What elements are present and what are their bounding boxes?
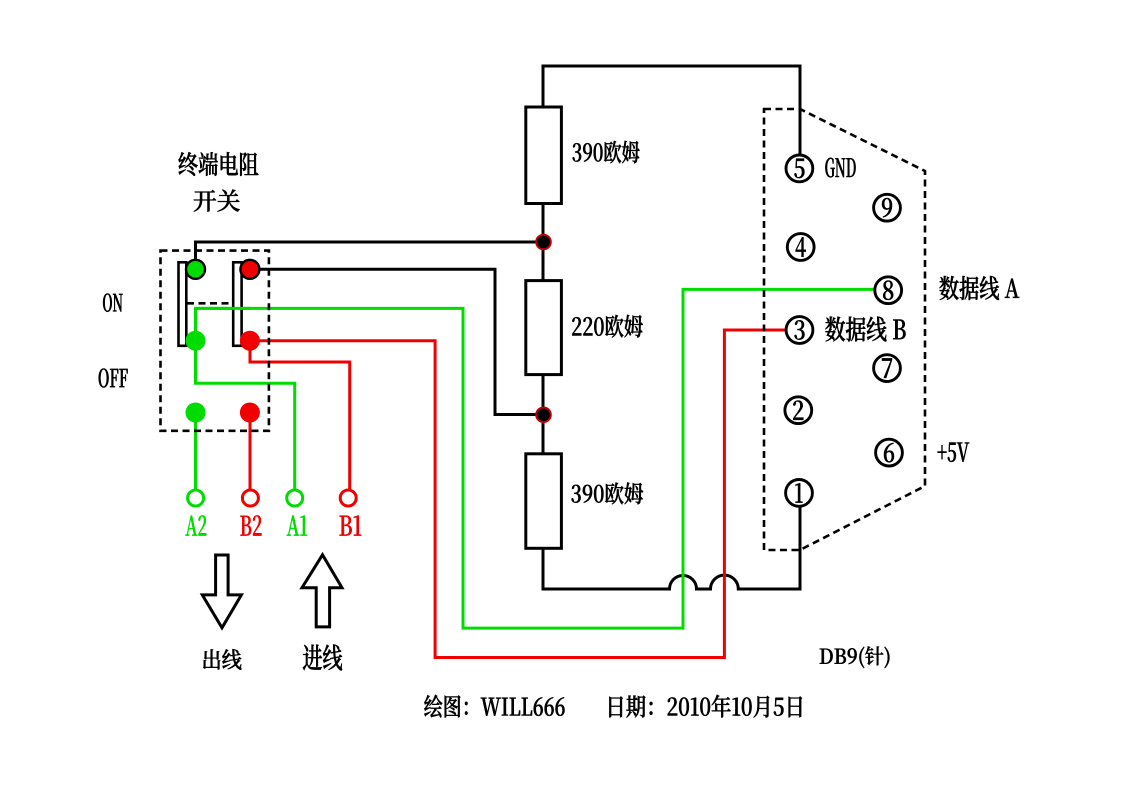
title 绘图：WILL666 bbox=[424, 695, 564, 718]
pin 3 circle bbox=[786, 317, 813, 344]
green ON wire over pole bbox=[196, 308, 251, 340]
label 终端电阻 bbox=[178, 152, 258, 176]
label B1 bbox=[340, 515, 362, 535]
pin 5 circle bbox=[786, 155, 813, 182]
label A2 bbox=[186, 515, 207, 535]
pin 7 circle bbox=[874, 355, 901, 382]
terminal circle B1 bbox=[340, 490, 356, 506]
pin 6 number bbox=[884, 443, 894, 462]
switch linkage dashed bbox=[187, 302, 233, 305]
DB9 connector dashed outline bbox=[764, 109, 925, 550]
wire green data line A: switch to pin 8 bbox=[196, 289, 875, 628]
pin 9 circle bbox=[874, 194, 901, 221]
wire R2 bottom to R3 top bbox=[542, 374, 545, 454]
terminal dot red bottom bbox=[240, 403, 260, 423]
label 开关 bbox=[194, 190, 240, 212]
pin 2 circle bbox=[785, 397, 812, 424]
label A1 bbox=[287, 515, 307, 535]
wire green to terminal A1 bbox=[196, 345, 295, 489]
pin 8 number bbox=[883, 281, 893, 300]
value 390欧姆 R1 bbox=[573, 141, 640, 164]
wire red to terminal B2 bbox=[249, 413, 252, 490]
pin 9 number bbox=[882, 198, 892, 217]
pin 5 number bbox=[794, 159, 804, 178]
pin 1 number bbox=[795, 483, 802, 502]
label 进线 bbox=[303, 645, 342, 671]
label 出线 bbox=[203, 649, 241, 669]
pin 1 circle bbox=[786, 480, 813, 507]
value 390欧姆 R3 bbox=[572, 483, 644, 505]
terminal dot green middle bbox=[186, 331, 206, 351]
wire R3 bottom to pin 1 with hops bbox=[543, 506, 800, 589]
label 数据线 B bbox=[825, 317, 905, 342]
pin 4 circle bbox=[787, 234, 814, 261]
pin 2 number bbox=[793, 401, 803, 420]
label DB9(针) bbox=[820, 646, 890, 668]
wire switch red terminal to junction B bbox=[256, 269, 540, 414]
pin 3 number bbox=[795, 320, 805, 339]
arrow incoming (up) bbox=[302, 555, 342, 627]
pin 7 number bbox=[882, 358, 892, 377]
switch pole left bbox=[179, 262, 187, 346]
wire top bus from R1 to pin 5 bbox=[543, 66, 800, 154]
terminal dot green top bbox=[186, 260, 205, 279]
title 日期：2010年10月5日 bbox=[609, 695, 802, 718]
label +5V bbox=[938, 442, 969, 461]
pin 6 circle bbox=[876, 439, 903, 466]
switch enclosure dashed box bbox=[161, 251, 269, 431]
label ON bbox=[103, 293, 122, 311]
resistor R2 220 ohm bbox=[526, 281, 562, 375]
wire R1 bottom to R2 top bbox=[542, 203, 545, 281]
label B2 bbox=[241, 515, 262, 535]
junction node A bbox=[536, 235, 551, 250]
junction node B bbox=[536, 408, 551, 423]
wire green to terminal A2 bbox=[194, 413, 197, 490]
terminal dot green bottom bbox=[186, 403, 206, 423]
switch pole right bbox=[233, 262, 241, 346]
label 数据线 A bbox=[939, 276, 1019, 300]
label OFF bbox=[99, 369, 128, 388]
resistor R1 390 ohm bbox=[526, 107, 562, 204]
wire switch green terminal to junction A bbox=[196, 242, 544, 262]
arrow outgoing (down) bbox=[202, 555, 241, 628]
label GND pin5 bbox=[825, 158, 855, 178]
pin 4 number bbox=[796, 237, 806, 256]
value 220欧姆 R2 bbox=[572, 315, 642, 338]
terminal dot red top bbox=[240, 260, 259, 279]
terminal circle A2 bbox=[188, 490, 204, 506]
wire red data line B: switch to pin 3 bbox=[250, 330, 785, 658]
terminal circle A1 bbox=[287, 490, 303, 506]
terminal circle B2 bbox=[242, 490, 258, 506]
pin 8 circle bbox=[875, 277, 902, 304]
wire red to terminal B1 bbox=[250, 345, 350, 489]
resistor R3 390 ohm bbox=[526, 454, 562, 549]
terminal dot red middle bbox=[240, 331, 260, 351]
